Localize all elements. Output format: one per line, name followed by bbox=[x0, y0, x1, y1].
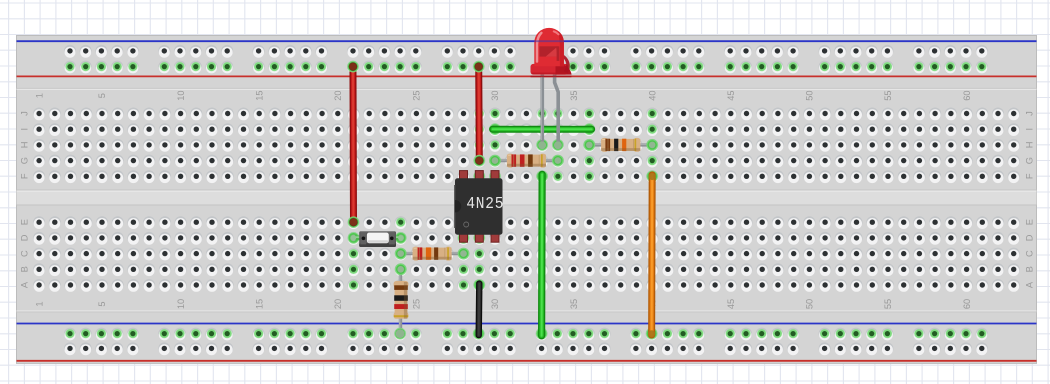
svg-text:1: 1 bbox=[34, 301, 44, 306]
svg-text:J: J bbox=[19, 111, 29, 116]
svg-text:D: D bbox=[19, 234, 29, 241]
svg-text:30: 30 bbox=[490, 299, 500, 309]
resistor R3 red-orange-brown-gold (C24 to C28) bbox=[395, 247, 470, 261]
svg-text:60: 60 bbox=[962, 90, 972, 100]
svg-text:15: 15 bbox=[254, 299, 264, 309]
svg-text:I: I bbox=[1025, 128, 1035, 131]
wire W5 green (F33 to - rail) bbox=[536, 171, 548, 340]
svg-text:H: H bbox=[1025, 142, 1035, 149]
svg-text:10: 10 bbox=[176, 299, 186, 309]
svg-text:25: 25 bbox=[412, 90, 422, 100]
svg-text:H: H bbox=[19, 142, 29, 149]
U1 pins 6,5,4 (row F cols 28-30) bbox=[460, 171, 468, 180]
svg-text:60: 60 bbox=[962, 299, 972, 309]
wire W3 black (A29 to - rail) bbox=[473, 279, 485, 339]
bottom rail blue line bbox=[17, 323, 1037, 325]
svg-text:55: 55 bbox=[883, 90, 893, 100]
svg-text:B: B bbox=[19, 266, 29, 272]
row letter labels bbox=[19, 111, 1034, 288]
svg-text:25: 25 bbox=[412, 299, 422, 309]
wire W2 red (+rail to G29) bbox=[473, 61, 485, 167]
svg-text:E: E bbox=[1025, 219, 1035, 225]
svg-text:4N25: 4N25 bbox=[466, 194, 504, 213]
svg-text:50: 50 bbox=[805, 90, 815, 100]
svg-text:20: 20 bbox=[333, 90, 343, 100]
svg-text:G: G bbox=[19, 157, 29, 164]
svg-text:35: 35 bbox=[569, 90, 579, 100]
svg-text:5: 5 bbox=[97, 93, 107, 98]
svg-text:C: C bbox=[1025, 250, 1035, 257]
LED D1 cathode/anode legs bbox=[536, 139, 548, 151]
U1 body bbox=[455, 178, 503, 234]
svg-text:F: F bbox=[19, 173, 29, 179]
svg-text:I: I bbox=[19, 128, 29, 131]
svg-text:A: A bbox=[1025, 281, 1035, 288]
top rail blue line bbox=[17, 40, 1037, 42]
optocoupler IC U1 4N25 (pins F28-F30 / D28-D30) bbox=[455, 171, 504, 244]
svg-text:J: J bbox=[1025, 111, 1035, 116]
top rail red line bbox=[17, 75, 1037, 77]
svg-text:35: 35 bbox=[569, 299, 579, 309]
wire W4 green (I30 to I36) bbox=[489, 123, 595, 135]
wire W1 red (+rail to E21) bbox=[347, 61, 359, 228]
svg-text:45: 45 bbox=[726, 90, 736, 100]
svg-text:A: A bbox=[19, 281, 29, 288]
svg-text:55: 55 bbox=[883, 299, 893, 309]
svg-text:40: 40 bbox=[647, 90, 657, 100]
svg-text:E: E bbox=[19, 219, 29, 225]
column number labels bbox=[34, 90, 972, 309]
resistor R1 220 red-red-brown (G30 to G34) bbox=[489, 154, 564, 168]
svg-text:1: 1 bbox=[34, 93, 44, 98]
power rail holes bbox=[64, 45, 988, 355]
bottom rail red line bbox=[17, 360, 1037, 362]
LED D1 body bbox=[531, 64, 569, 75]
svg-text:50: 50 bbox=[805, 299, 815, 309]
center channel bbox=[17, 190, 1037, 205]
svg-text:45: 45 bbox=[726, 299, 736, 309]
svg-text:15: 15 bbox=[254, 90, 264, 100]
resistor R4 1k brown-black-red (B24 to - rail) bbox=[394, 263, 409, 339]
svg-text:20: 20 bbox=[333, 299, 343, 309]
svg-text:F: F bbox=[1025, 173, 1035, 179]
switch S1 (D21 to D24) bbox=[348, 231, 407, 247]
svg-text:B: B bbox=[1025, 266, 1035, 272]
svg-text:C: C bbox=[19, 250, 29, 257]
resistor R2 10k brown-black-orange (H36 to H40) bbox=[583, 138, 658, 152]
wire W6 orange (F40 to - rail) bbox=[646, 171, 658, 340]
svg-text:10: 10 bbox=[176, 90, 186, 100]
svg-text:30: 30 bbox=[490, 90, 500, 100]
U1 pins 1,2,3 (row D cols 28-30) bbox=[458, 232, 470, 244]
svg-text:5: 5 bbox=[97, 301, 107, 306]
svg-text:D: D bbox=[1025, 234, 1035, 241]
connected strip highlights bbox=[348, 108, 659, 292]
LED D1 red 5mm (legs H33, H34) bbox=[531, 28, 572, 151]
socket holes main field bbox=[33, 108, 1020, 292]
svg-text:G: G bbox=[1025, 157, 1035, 164]
